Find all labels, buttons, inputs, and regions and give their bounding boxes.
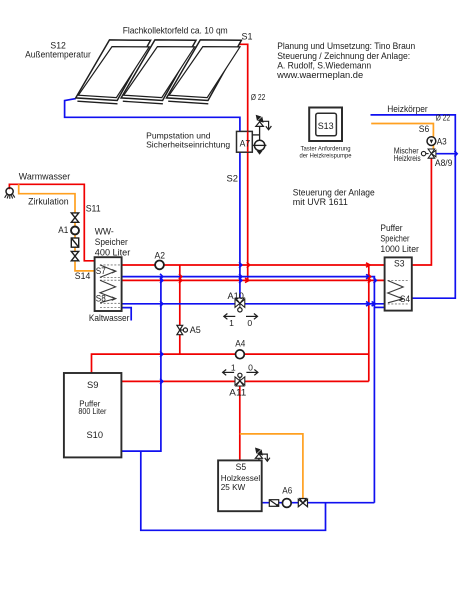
node: junction chevron on red H1 at right riser tee: [366, 263, 370, 267]
svg-text:mit UVR 1611: mit UVR 1611: [293, 197, 348, 207]
check valve at kessel: [269, 500, 279, 507]
wire: red kessel supply (A11 down to Holzkessel): [239, 381, 241, 461]
pump A6: [282, 499, 291, 508]
Puffer Speicher 1000 L tank: [385, 257, 412, 310]
coil S8: [100, 280, 120, 307]
check valve on Zirkulation: [71, 238, 78, 247]
node: junction chevrons on blue header H3: [366, 302, 370, 306]
svg-text:Speicher: Speicher: [95, 237, 128, 247]
svg-text:Speicher: Speicher: [380, 233, 409, 243]
svg-text:Ø 22: Ø 22: [251, 92, 266, 102]
S13 button box: [309, 108, 342, 142]
svg-text:800 Liter: 800 Liter: [78, 407, 106, 416]
svg-text:A2: A2: [155, 250, 166, 260]
safety valve at Holzkessel: [255, 448, 270, 462]
svg-text:S10: S10: [87, 430, 104, 440]
A10 direction arrows: [224, 314, 258, 320]
svg-text:Zirkulation: Zirkulation: [28, 196, 69, 207]
wire: solar supply S1 red (collector to solar line): [239, 44, 248, 280]
svg-text:S8: S8: [96, 293, 106, 303]
A11 direction arrows: [223, 370, 258, 376]
svg-text:Planung und Umsetzung: Tino Br: Planung und Umsetzung: Tino Braun: [277, 41, 415, 51]
svg-text:A11: A11: [229, 387, 246, 397]
wire: red header H1 (WW tank to Puffer 1000): [122, 264, 385, 266]
svg-text:A7: A7: [240, 139, 251, 149]
svg-text:WW-: WW-: [95, 226, 114, 236]
3-way valve at kessel (orange join): [298, 499, 307, 507]
wire: Heizkoerper orange supply: [371, 124, 433, 149]
svg-text:1: 1: [229, 318, 234, 328]
svg-text:S7: S7: [96, 266, 106, 276]
node: junction chevron on blue header H2: [366, 274, 370, 278]
svg-text:400 Liter: 400 Liter: [95, 247, 131, 257]
pump station A7 box: [237, 131, 253, 152]
wire: Warmwasser red supply (tap to WW tank): [9, 184, 94, 260]
svg-text:S14: S14: [75, 271, 91, 281]
svg-text:A8/9: A8/9: [435, 158, 453, 168]
wire: red header H4 into Puffer 800 top: [92, 354, 369, 373]
svg-text:Steuerung der Anlage: Steuerung der Anlage: [293, 187, 375, 197]
node: junction chevrons on blue left riser: [160, 274, 163, 280]
3-way valve A10: [235, 298, 245, 312]
svg-text:Heizkreis: Heizkreis: [394, 154, 421, 163]
svg-text:A1: A1: [58, 225, 68, 235]
collector panel 2: [121, 40, 196, 104]
svg-text:der Heizkreispumpe: der Heizkreispumpe: [300, 153, 352, 160]
node: junction chevrons on blue solar return: [239, 262, 242, 268]
pump A4: [236, 350, 245, 359]
svg-text:S1: S1: [242, 31, 253, 41]
svg-text:Heizkörper: Heizkörper: [387, 104, 428, 114]
svg-text:Sicherheitseinrichtung: Sicherheitseinrichtung: [146, 139, 230, 149]
wire: blue stub into Puffer 1000 left: [374, 306, 384, 308]
Holzkessel box: [218, 460, 262, 511]
wire: blue header H3 through A10: [122, 303, 385, 305]
WW-Speicher 400 L tank: [95, 257, 122, 311]
mixer valve A8/9: [421, 149, 436, 158]
svg-text:0: 0: [248, 363, 253, 373]
3-way valve A11: [235, 373, 245, 386]
svg-text:S3: S3: [394, 259, 405, 269]
svg-text:A3: A3: [437, 136, 447, 146]
svg-text:1: 1: [231, 363, 236, 373]
wire: blue bottom rail: [141, 451, 326, 530]
tap / shower symbol Warmwasser: [5, 188, 15, 199]
wire: kessel orange bypass: [240, 434, 303, 499]
svg-text:S5: S5: [236, 462, 247, 472]
svg-text:www.waermeplan.de: www.waermeplan.de: [276, 70, 363, 80]
node: junction chevrons on red A5 drop: [179, 274, 182, 280]
node: junction chevron on solar red at H1: [247, 262, 250, 268]
wire: red through A7 box: [247, 131, 249, 152]
coil S4: [388, 281, 410, 304]
node: junction chevron on solar red at H2b tee: [245, 278, 249, 282]
svg-text:S13: S13: [318, 121, 334, 131]
wire: Heizkoerper blue return: [371, 115, 456, 298]
expansion vessel at A7: [253, 140, 267, 155]
wire: kessel blue return line: [262, 502, 375, 504]
svg-text:A10: A10: [228, 291, 244, 301]
svg-text:Puffer: Puffer: [380, 223, 402, 233]
wire: mixer blue stub: [436, 153, 455, 155]
svg-text:Warmwasser: Warmwasser: [19, 171, 71, 182]
wire: red header H5 (Puffer 800 to right riser): [122, 380, 369, 382]
svg-text:25 KW: 25 KW: [221, 482, 246, 492]
wire: blue left riser to Puffer 800 bottom: [121, 277, 161, 452]
svg-text:S9: S9: [87, 380, 99, 390]
wire: Zirkulation orange: [19, 184, 95, 271]
node: junction chevrons on red right riser: [368, 274, 371, 280]
svg-text:1000 Liter: 1000 Liter: [380, 244, 419, 254]
collector panel 3: [167, 40, 242, 104]
wire: red right riser: [368, 265, 370, 381]
svg-text:S6: S6: [419, 124, 430, 134]
pump A3: [427, 137, 436, 146]
valve V2 on Zirkulation: [71, 251, 78, 260]
wire: blue solar return (collector - A7 - A10): [65, 99, 240, 132]
svg-text:A5: A5: [190, 325, 201, 335]
wire: solar red header H2b: [122, 279, 385, 281]
wire: Kaltwasser stub: [122, 308, 132, 321]
svg-text:Flachkollektorfeld ca. 10 qm: Flachkollektorfeld ca. 10 qm: [123, 26, 228, 36]
svg-text:A4: A4: [235, 338, 245, 348]
svg-text:Steuerung / Zeichnung der Anla: Steuerung / Zeichnung der Anlage:: [277, 51, 410, 61]
wire: red from mixer down to Puffer 1000: [412, 158, 432, 266]
svg-text:Taster Anforderung: Taster Anforderung: [301, 145, 351, 152]
collector panel 1: [76, 40, 151, 104]
svg-text:0: 0: [247, 318, 252, 328]
svg-text:S11: S11: [86, 204, 101, 214]
solar collector field (3 panels): [76, 40, 242, 104]
Puffer 800 L tank: [64, 373, 122, 457]
svg-text:Ø 22: Ø 22: [436, 113, 451, 123]
svg-text:Außentemperatur: Außentemperatur: [25, 50, 91, 61]
svg-text:S2: S2: [227, 174, 239, 184]
svg-text:Kaltwasser: Kaltwasser: [89, 313, 130, 323]
svg-text:A6: A6: [282, 486, 292, 496]
wire: blue header H2 with drop to kessel return: [122, 277, 375, 503]
valve A5 with actuator: [177, 325, 188, 334]
wire: red drop through A5: [179, 265, 181, 354]
coil S7: [100, 265, 121, 278]
svg-text:S4: S4: [400, 294, 410, 304]
safety group at A7 (valve + blow-off arrow + stem): [252, 115, 271, 141]
node: junction chevron at mixer blue tee: [454, 151, 457, 157]
svg-text:A. Rudolf, S.Wiedemann: A. Rudolf, S.Wiedemann: [277, 60, 371, 70]
pump A1: [71, 227, 79, 235]
node: junction chevron on blue kessel-drop riser: [374, 278, 377, 284]
valve V1 on Zirkulation: [71, 213, 78, 222]
pump A2: [155, 261, 164, 270]
